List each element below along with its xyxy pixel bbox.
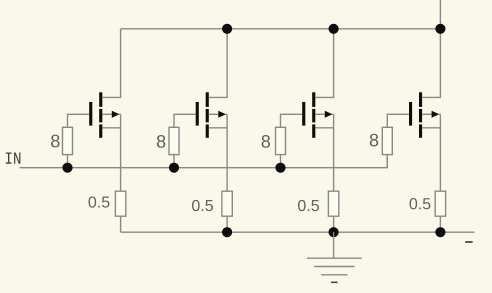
value label 8 (column 2) [157, 135, 165, 148]
MOSFET M3 channel body segment [312, 109, 315, 123]
MOSFET M1 bulk lead with right-pointing arrow [102, 111, 120, 118]
wire: IN bus horizontal, ends rising to column 4 resistor [20, 154, 388, 167]
resistor 8 ohm, gate resistor column 3 [276, 127, 286, 154]
resistor 8 ohm, gate resistor column 4 [382, 127, 392, 154]
MOSFET M4 channel body segment [419, 109, 422, 123]
MOSFET M2 channel drain segment [206, 92, 209, 107]
value label 8 (column 1) [51, 135, 59, 148]
value label 0.5 (column 1) [89, 196, 110, 207]
wire: top supply rail [121, 28, 441, 30]
junction: M3 drain on top rail [329, 24, 339, 34]
MOSFET M4 channel drain segment [419, 92, 422, 107]
wire: 0.5 resistor bottom lead down to ground rail (column 2) [226, 216, 228, 232]
wire: 8-resistor bottom lead down to IN bus (column 2) [173, 154, 175, 167]
wire: 0.5 resistor bottom lead down to ground rail (column 1) [120, 216, 122, 232]
MOSFET M1 channel body segment [99, 109, 102, 123]
MOSFET M2 bulk lead with right-pointing arrow [209, 111, 227, 118]
wire: 0.5 resistor bottom lead down to ground rail (column 4) [439, 216, 441, 232]
wire: 8-resistor bottom lead down to IN bus (column 3) [280, 154, 282, 167]
wire: M3 drain lead right then up to top rail [315, 29, 333, 98]
MOSFET M1 channel drain segment [99, 92, 102, 107]
wire: M1 source lead right to column vertical [102, 127, 120, 129]
junction: column 2 on bottom ground rail [222, 227, 232, 237]
value label 8 (column 3) [262, 135, 270, 148]
MOSFET M3 bulk lead with right-pointing arrow [315, 111, 333, 118]
wire: 8-resistor top lead up and right to gate of M1 [68, 114, 90, 127]
net label IN [6, 153, 21, 164]
MOSFET M1 gate bar [89, 102, 92, 126]
wire: 8-resistor bottom lead down to IN bus (column 4) [386, 154, 388, 167]
resistor 0.5 ohm (column 1) [115, 191, 125, 216]
resistor 0.5 ohm (column 4) [435, 191, 445, 216]
wire: 8-resistor top lead up and right to gate of M3 [281, 114, 303, 127]
wire: M4 source lead right to column vertical [422, 127, 440, 129]
MOSFET M4 gate bar [409, 102, 412, 126]
MOSFET M3 channel drain segment [312, 92, 315, 107]
MOSFET M3 gate bar [302, 102, 305, 126]
junction: M4 drain on top rail [435, 24, 445, 34]
ground symbol [307, 232, 362, 282]
MOSFET M3 channel source segment [312, 124, 315, 137]
junction: 8-resistor column 3 on IN bus [275, 163, 285, 173]
MOSFET M2 channel body segment [206, 109, 209, 123]
wire: M2 source lead right to column vertical [209, 127, 227, 129]
resistor 0.5 ohm (column 3) [328, 191, 338, 216]
junction: M2 drain on top rail [222, 24, 232, 34]
value label 8 (column 4) [370, 134, 378, 147]
wire: column 2 source/bulk vertical down to 0.5 resistor [226, 114, 228, 191]
value label 0.5 (column 2) [192, 200, 213, 211]
junction: 8-resistor column 1 on IN bus [62, 163, 72, 173]
resistor 8 ohm, gate resistor column 1 [63, 127, 73, 154]
MOSFET M2 gate bar [196, 102, 199, 126]
value label 0.5 (column 4) [410, 198, 431, 209]
junction: column 3 on bottom ground rail [329, 227, 339, 237]
wire: column 3 source/bulk vertical down to 0.5 resistor [333, 114, 335, 191]
resistor 8 ohm, gate resistor column 2 [169, 127, 179, 154]
wire: M3 source lead right to column vertical [315, 127, 333, 129]
wire: column 1 source/bulk vertical down to 0.5 resistor [120, 114, 122, 191]
wire: 8-resistor bottom lead down to IN bus (column 1) [67, 154, 69, 167]
wire: 8-resistor top lead up and right to gate of M4 [387, 114, 409, 127]
wire: M4 drain lead right then up to top rail [422, 0, 440, 97]
wire: M1 drain lead right then up to top rail [102, 29, 120, 98]
MOSFET M4 channel source segment [419, 124, 422, 137]
junction: column 4 on bottom ground rail [435, 227, 445, 237]
MOSFET M2 channel source segment [206, 124, 209, 137]
MOSFET M1 channel source segment [99, 124, 102, 137]
MOSFET M4 bulk lead with right-pointing arrow [422, 111, 440, 118]
resistor 0.5 ohm (column 2) [222, 191, 232, 216]
wire: 0.5 resistor bottom lead down to ground rail (column 3) [333, 216, 335, 232]
wire: column 4 source/bulk vertical down to 0.5 resistor [439, 114, 441, 191]
wire: 8-resistor top lead up and right to gate of M2 [174, 114, 196, 127]
junction: 8-resistor column 2 on IN bus [169, 163, 179, 173]
wire: bottom ground rail [121, 231, 475, 233]
dash marker near right end of ground rail [465, 241, 472, 243]
value label 0.5 (column 3) [298, 200, 319, 211]
wire: M2 drain lead right then up to top rail [209, 29, 227, 98]
